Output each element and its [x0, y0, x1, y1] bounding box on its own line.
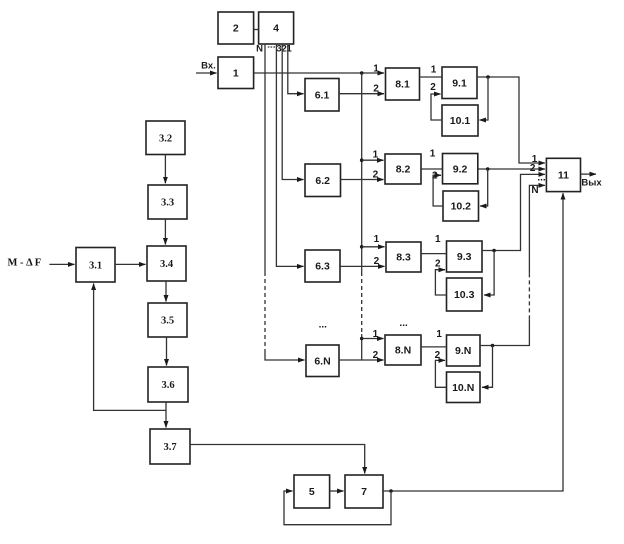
svg-text:6.N: 6.N [314, 355, 330, 367]
svg-text:3.7: 3.7 [163, 442, 176, 453]
svg-text:1: 1 [435, 234, 441, 245]
svg-text:5: 5 [309, 486, 315, 498]
svg-text:8.1: 8.1 [395, 79, 410, 91]
svg-text:2: 2 [530, 163, 536, 174]
svg-text:3.2: 3.2 [159, 133, 172, 144]
svg-text:11: 11 [558, 170, 569, 182]
svg-text:3.4: 3.4 [160, 259, 174, 270]
svg-text:М - Δ F: М - Δ F [8, 258, 42, 269]
svg-text:N: N [256, 44, 263, 55]
svg-text:2: 2 [435, 350, 441, 361]
svg-text:2: 2 [373, 350, 379, 361]
svg-text:1: 1 [436, 329, 442, 340]
svg-text:8.N: 8.N [395, 345, 411, 357]
svg-text:1: 1 [374, 234, 380, 245]
svg-text:...: ... [537, 173, 546, 184]
svg-text:9.1: 9.1 [452, 77, 467, 89]
svg-text:6.3: 6.3 [315, 261, 330, 273]
svg-text:Вх.: Вх. [201, 61, 216, 72]
svg-text:2: 2 [233, 23, 239, 35]
svg-text:10.3: 10.3 [454, 289, 475, 301]
svg-text:2: 2 [374, 256, 380, 267]
svg-text:2: 2 [373, 169, 379, 180]
svg-text:10.2: 10.2 [451, 201, 472, 213]
svg-text:3.6: 3.6 [161, 380, 174, 391]
svg-text:6.2: 6.2 [315, 175, 330, 187]
svg-text:9.2: 9.2 [453, 163, 468, 175]
svg-text:...: ... [399, 318, 408, 329]
svg-text:2: 2 [430, 82, 436, 93]
svg-text:6.1: 6.1 [315, 89, 330, 101]
svg-text:1: 1 [373, 149, 379, 160]
svg-text:7: 7 [361, 486, 367, 498]
svg-text:Вых: Вых [581, 178, 602, 189]
svg-text:3.3: 3.3 [161, 198, 174, 209]
svg-text:2: 2 [373, 83, 379, 94]
svg-text:1: 1 [430, 148, 436, 159]
svg-text:1: 1 [373, 63, 379, 74]
svg-text:9.N: 9.N [455, 345, 471, 357]
svg-text:8.2: 8.2 [396, 164, 411, 176]
svg-text:10.N: 10.N [452, 382, 474, 394]
svg-text:8.3: 8.3 [396, 252, 411, 264]
svg-text:1: 1 [233, 67, 239, 79]
svg-text:2: 2 [435, 258, 441, 269]
svg-text:1: 1 [373, 329, 379, 340]
svg-text:3.1: 3.1 [89, 260, 102, 271]
svg-text:N: N [531, 185, 538, 196]
svg-text:9.3: 9.3 [457, 251, 472, 263]
svg-text:4: 4 [273, 23, 279, 35]
svg-text:...: ... [319, 320, 328, 331]
svg-text:10.1: 10.1 [450, 115, 471, 127]
svg-text:1: 1 [431, 64, 437, 75]
svg-text:3.5: 3.5 [161, 316, 174, 327]
